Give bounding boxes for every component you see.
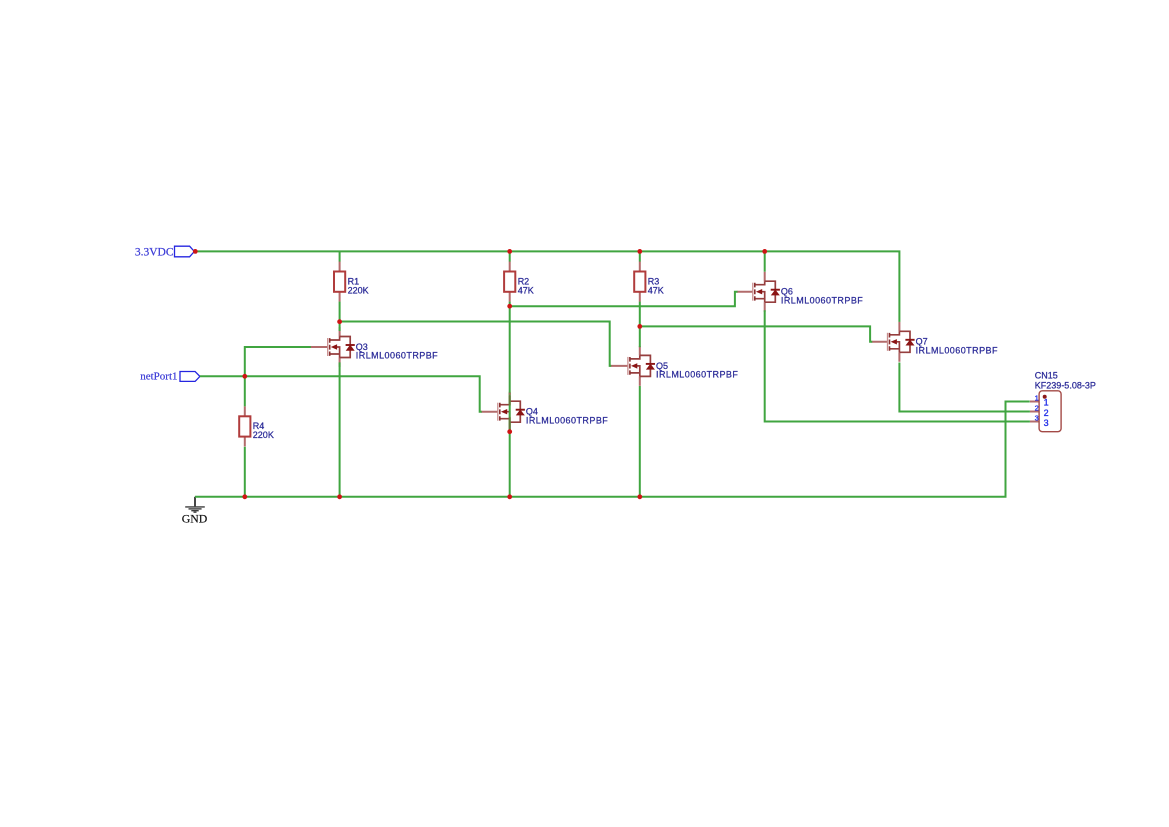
junction R2 bottom / Q6 gate xyxy=(507,304,512,309)
resistor R2 47K xyxy=(504,262,515,302)
junction Q4 source / GND rail xyxy=(507,494,512,499)
junction R4 bottom / GND rail xyxy=(242,494,247,499)
svg-text:47K: 47K xyxy=(518,285,534,295)
resistor R4 220K xyxy=(239,406,250,446)
wire rail to R1 top xyxy=(339,251,341,261)
resistor R1 220K xyxy=(334,262,345,302)
connector CN15 xyxy=(1030,391,1061,432)
transistor Q3 IRLML0060TRPBF xyxy=(310,327,355,367)
junction R3 top xyxy=(637,249,642,254)
svg-text:1: 1 xyxy=(1035,393,1039,402)
wire Q3 source to GND rail xyxy=(339,362,341,496)
wire Q5 source to GND rail xyxy=(639,386,641,497)
wire rail to Q6 drain xyxy=(764,251,766,271)
transistor Q7 IRLML0060TRPBF xyxy=(872,322,915,362)
junction R2 top xyxy=(507,249,512,254)
junction netPort1 / R4 / Q3 gate xyxy=(242,374,247,379)
svg-text:IRLML0060TRPBF: IRLML0060TRPBF xyxy=(526,415,608,425)
transistor Q4 IRLML0060TRPBF xyxy=(481,392,525,432)
wire overlap Q4 drain (blend) xyxy=(509,396,511,406)
wire node R3 to Q7 gate xyxy=(640,326,872,341)
svg-text:IRLML0060TRPBF: IRLML0060TRPBF xyxy=(356,351,438,361)
junction Q6 drain xyxy=(762,249,767,254)
wire R4 bottom to GND rail xyxy=(244,447,246,497)
wire R2 bottom through Q4 to GND rail xyxy=(509,302,511,497)
svg-text:KF239-5.08-3P: KF239-5.08-3P xyxy=(1035,381,1096,391)
port 3.3VDC xyxy=(135,246,194,259)
wire Q3 gate to netPort1 node xyxy=(245,347,311,376)
wire node R1 to Q5 gate xyxy=(340,322,612,366)
transistor Q5 IRLML0060TRPBF xyxy=(611,346,656,386)
wire 3.3VDC rail to Q7 drain xyxy=(195,251,899,322)
wire node R2 to Q6 gate xyxy=(510,292,738,307)
CN15 pin names outside xyxy=(1035,393,1039,422)
svg-text:220K: 220K xyxy=(348,285,369,295)
svg-text:47K: 47K xyxy=(648,285,664,295)
junction R1 bottom / Q3 drain xyxy=(337,319,342,324)
wire netPort1 to Q4 gate xyxy=(200,376,482,411)
svg-text:CN15: CN15 xyxy=(1035,371,1058,381)
wire GND rail to CN15 pin 1 xyxy=(195,402,1030,497)
transistor Q6 IRLML0060TRPBF xyxy=(737,272,780,312)
svg-text:2: 2 xyxy=(1035,404,1039,413)
svg-text:2: 2 xyxy=(1044,408,1049,418)
junction Q4 source xyxy=(507,429,512,434)
svg-text:IRLML0060TRPBF: IRLML0060TRPBF xyxy=(781,295,863,305)
svg-text:GND: GND xyxy=(182,512,208,526)
svg-text:IRLML0060TRPBF: IRLML0060TRPBF xyxy=(916,345,998,355)
junction R3 bottom / Q7 gate xyxy=(637,324,642,329)
junction 3.3VDC port xyxy=(193,249,198,254)
junction Q3 source / GND rail xyxy=(337,494,342,499)
wire stub fleck Q4 drain xyxy=(509,393,511,395)
svg-text:3: 3 xyxy=(1035,414,1039,423)
junction Q5 source / GND rail xyxy=(637,494,642,499)
svg-text:IRLML0060TRPBF: IRLML0060TRPBF xyxy=(656,370,738,380)
CN15 pin numbers inside xyxy=(1044,398,1049,428)
wire rail to R2 top xyxy=(509,251,511,261)
svg-text:netPort1: netPort1 xyxy=(140,371,177,383)
svg-text:220K: 220K xyxy=(253,430,274,440)
resistor R3 47K xyxy=(634,262,645,302)
svg-text:1: 1 xyxy=(1044,398,1049,408)
svg-text:3: 3 xyxy=(1044,418,1049,428)
wire rail to R3 top xyxy=(639,251,641,261)
wire netPort1 node to R4 top xyxy=(244,376,246,406)
wire Q7 source to CN15 pin 2 xyxy=(899,363,1030,412)
svg-text:3.3VDC: 3.3VDC xyxy=(135,247,174,259)
port netPort1 xyxy=(140,371,200,383)
wire R1 bottom to Q3 drain xyxy=(339,302,341,331)
ground symbol xyxy=(185,497,205,512)
CN15 pin-1 marker xyxy=(1043,395,1047,399)
wire R3 bottom to Q5 drain xyxy=(639,302,641,348)
wire overlap Q4 source (blend) xyxy=(509,417,511,430)
wire Q6 source to CN15 pin 3 xyxy=(765,310,1030,421)
